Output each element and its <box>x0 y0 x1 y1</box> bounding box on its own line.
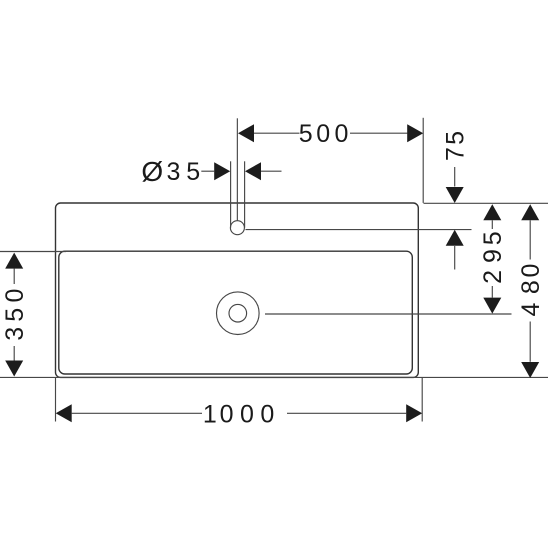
480 dimension line lower <box>529 322 531 362</box>
75 dimension tail above <box>454 167 456 187</box>
extension line right of 500 <box>422 118 424 203</box>
arrow 295 up <box>483 204 501 220</box>
arrow 295 down <box>483 298 501 314</box>
extension line drain center right <box>265 313 512 315</box>
svg-text:7: 7 <box>441 147 469 161</box>
arrow Ø35 pointing left <box>245 162 261 180</box>
svg-text:0: 0 <box>316 120 330 148</box>
arrow 350 down <box>5 361 23 377</box>
svg-text:5: 5 <box>479 231 507 245</box>
75 dimension tail below <box>454 246 456 270</box>
svg-text:5: 5 <box>299 120 313 148</box>
arrow 480 down <box>521 362 539 378</box>
faucet hole tangent line left <box>230 161 232 227</box>
arrow 350 up <box>5 253 23 269</box>
295 dimension line lower <box>491 286 493 298</box>
extension line bottom full width <box>0 376 548 378</box>
svg-text:0: 0 <box>1 289 29 303</box>
295 dimension line upper <box>491 220 493 229</box>
svg-text:9: 9 <box>479 249 507 263</box>
480 dimension line upper <box>529 220 531 259</box>
faucet center line <box>236 118 238 220</box>
extension line left vertical below basin <box>55 377 57 421</box>
basin outer rect <box>56 203 419 377</box>
drain outer circle <box>217 292 260 335</box>
faucet hole circle <box>230 221 244 235</box>
350 dimension line upper <box>13 269 15 284</box>
1000 dimension line left segment <box>72 412 202 414</box>
extension line right vertical below basin <box>421 377 423 421</box>
svg-text:0: 0 <box>260 400 274 428</box>
extension line faucet center right <box>246 229 472 231</box>
extension line top left <box>0 251 66 253</box>
svg-text:0: 0 <box>335 120 349 148</box>
arrow 500 left <box>238 124 254 142</box>
svg-text:Ø: Ø <box>141 156 163 187</box>
basin inner rect <box>59 251 413 374</box>
svg-text:3: 3 <box>1 327 29 341</box>
1000 dimension line right segment <box>287 412 406 414</box>
arrow 75 up <box>446 230 464 246</box>
500 dimension line right segment <box>350 132 407 134</box>
Ø35 leader line right <box>261 170 282 172</box>
svg-text:8: 8 <box>517 280 545 294</box>
extension line top right horizontal <box>424 202 548 204</box>
svg-text:0: 0 <box>220 400 234 428</box>
Ø35 leader line left <box>201 170 214 172</box>
svg-text:1: 1 <box>203 400 217 428</box>
arrow Ø35 pointing right <box>214 162 230 180</box>
svg-text:3: 3 <box>166 158 180 186</box>
arrow 75 down <box>446 187 464 203</box>
350 dimension line lower <box>13 346 15 361</box>
drain inner circle <box>229 304 247 322</box>
arrow 480 up <box>521 204 539 220</box>
svg-text:2: 2 <box>479 270 507 284</box>
svg-text:4: 4 <box>517 303 545 317</box>
arrow 1000 right <box>406 404 422 422</box>
svg-text:0: 0 <box>517 264 545 278</box>
faucet hole tangent line right <box>244 161 246 227</box>
svg-text:5: 5 <box>1 308 29 322</box>
svg-text:5: 5 <box>186 158 200 186</box>
500 dimension line left segment <box>254 132 300 134</box>
arrow 1000 left <box>56 404 72 422</box>
arrow 500 right <box>407 124 423 142</box>
svg-text:5: 5 <box>441 131 469 145</box>
svg-text:0: 0 <box>240 400 254 428</box>
